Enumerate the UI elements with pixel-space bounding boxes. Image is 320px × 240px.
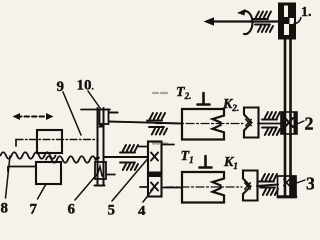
stub right of box 6	[106, 174, 115, 176]
lower box device 7	[36, 162, 61, 184]
gear box 10 on column	[100, 110, 109, 125]
feed column right line	[103, 108, 105, 185]
bearing right top lower	[262, 128, 280, 136]
svg-text:4: 4	[138, 204, 146, 216]
svg-text:1.: 1.	[301, 5, 312, 20]
svg-text:9: 9	[57, 79, 65, 95]
upper box device	[37, 130, 62, 153]
gear box 2 on vertical shaft	[281, 112, 297, 134]
vertical shaft line left	[284, 39, 287, 195]
worm block on vertical shaft	[278, 3, 296, 40]
clutch sliding half K1	[243, 171, 258, 201]
clutch sliding half K2	[244, 108, 259, 138]
svg-text:5: 5	[108, 203, 116, 216]
bearing middle shaft lower	[120, 163, 138, 171]
shaft K2 to bearing	[258, 123, 281, 125]
bearing right bottom lower	[260, 188, 278, 196]
scan smudge	[153, 92, 167, 94]
rotation arrowhead	[237, 9, 246, 16]
shaft K1 to bearing	[257, 185, 278, 187]
svg-text:T1: T1	[181, 149, 194, 165]
leader to label 1	[294, 18, 301, 24]
bearing right bottom upper	[259, 174, 277, 182]
x mark gear 4	[151, 183, 158, 191]
bearing top shaft upper	[147, 113, 165, 121]
axis left tick	[15, 140, 17, 147]
bottom shaft to clutch	[162, 187, 183, 189]
svg-text:T2.: T2.	[176, 85, 191, 101]
leader to label 2	[297, 121, 304, 124]
column foot	[95, 185, 105, 187]
vertical shaft line right	[289, 39, 292, 195]
stub right of gear block	[162, 144, 175, 146]
ratchet box 6 on column	[95, 162, 106, 179]
scan smudge	[153, 142, 167, 144]
leader to label 4	[143, 189, 153, 202]
x mark clutch K2	[246, 119, 252, 125]
leader to label 3	[297, 180, 306, 183]
input shaft	[208, 20, 283, 22]
input shaft arrowhead	[204, 17, 215, 26]
axis line through clutch K1	[166, 186, 242, 188]
clutch body K1	[182, 172, 224, 203]
x mark gear 5	[151, 153, 158, 161]
stub left bottom of gear block	[140, 186, 148, 188]
pawl arrow in box 6	[97, 167, 102, 177]
dashed arrow right head	[46, 113, 54, 120]
wedge below gear box 10	[98, 123, 105, 128]
svg-text:8: 8	[1, 201, 9, 216]
leader to label 5	[112, 159, 148, 201]
svg-text:10.: 10.	[77, 78, 94, 94]
dashed arrow left head	[13, 113, 21, 120]
feed column left line	[97, 108, 99, 185]
top drive shaft left segment	[109, 122, 183, 124]
sliding gear block items 4-5	[148, 142, 162, 197]
x mark gear 3	[284, 179, 290, 185]
double headed dashed arrow	[17, 116, 49, 118]
feed column top bar	[81, 109, 110, 111]
bearing top shaft lower	[149, 127, 167, 135]
flexible shaft 8 wavy line right	[46, 156, 99, 163]
axis line motor to column	[16, 139, 98, 141]
svg-text:K1: K1	[223, 155, 238, 171]
leader to label 6	[75, 173, 98, 200]
gear box 3 on vertical shaft	[278, 176, 297, 198]
leader to label 9	[63, 92, 81, 135]
svg-text:6: 6	[68, 202, 76, 216]
leader to label 10	[88, 91, 100, 108]
x mark gear 2	[285, 118, 293, 127]
axis line through clutch K2	[156, 123, 243, 125]
clutch body K2	[182, 109, 224, 140]
brake symbol T2	[198, 93, 210, 105]
bearing input shaft upper	[253, 12, 271, 20]
bearing middle shaft upper	[120, 145, 138, 153]
brake symbol T1	[200, 156, 212, 168]
svg-text:3: 3	[306, 174, 314, 194]
leader to label 8	[6, 156, 11, 198]
x mark clutch K1	[245, 183, 251, 189]
bearing right top upper	[262, 112, 280, 120]
rotation arrow	[243, 11, 252, 34]
svg-text:2: 2	[305, 114, 314, 134]
bearing input shaft lower	[255, 25, 273, 33]
middle shaft	[104, 156, 148, 158]
svg-text:7: 7	[30, 202, 38, 216]
flexible shaft 8 wavy line left	[1, 152, 56, 159]
line into lower box	[8, 167, 36, 172]
tick right of gear box 10	[109, 111, 118, 113]
stub left of gear block	[139, 146, 148, 148]
leader to label 7	[38, 184, 47, 199]
